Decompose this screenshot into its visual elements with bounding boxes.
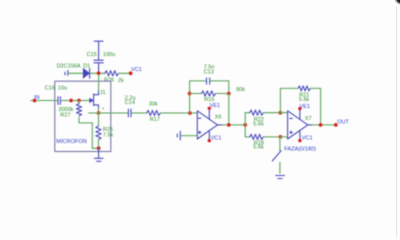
svg-text:C16: C16 — [45, 86, 55, 92]
wire D1 to junction — [91, 72, 105, 74]
op-amp X7 — [288, 109, 308, 141]
svg-text:X6: X6 — [215, 115, 222, 121]
power bar terminal (C15 top) — [94, 40, 103, 42]
transistor J1 — [89, 91, 99, 109]
svg-text:MICROFON: MICROFON — [56, 139, 86, 145]
capacitor C15 — [94, 60, 103, 73]
svg-text:7.5k: 7.5k — [103, 133, 114, 139]
svg-text:C13: C13 — [204, 69, 214, 75]
node (output/feedback R21) — [319, 123, 323, 127]
resistor R28 — [245, 134, 280, 139]
svg-text:R17: R17 — [150, 117, 160, 123]
wire J1 drain to D1 junction — [98, 75, 100, 91]
svg-text:C15: C15 — [87, 52, 97, 58]
svg-text:VE1: VE1 — [299, 104, 310, 110]
wire splitter vertical — [244, 113, 246, 137]
capacitor C14 — [128, 109, 131, 117]
svg-text:VC1: VC1 — [302, 136, 313, 142]
resistor R21 feedback — [280, 86, 320, 124]
node (J1 source) — [97, 111, 101, 115]
svg-text:R15: R15 — [204, 97, 214, 103]
resistor R17 — [147, 110, 161, 115]
node (X7 inverting input) — [279, 111, 283, 115]
wire source row to C14 — [89, 112, 128, 114]
pin mark (J1 source) — [103, 108, 104, 110]
page edge decorations — [396, 6, 398, 237]
svg-text:5.6k: 5.6k — [299, 97, 310, 103]
svg-text:100u: 100u — [103, 52, 115, 58]
power pin VE1 (X7) — [298, 107, 301, 110]
wire R28 to X7 — [280, 136, 287, 138]
wire power bar to C15 — [98, 42, 100, 60]
resistor R26 — [105, 71, 119, 76]
port (X6 non-inverting input) — [177, 131, 197, 140]
wire IN to C16 — [37, 100, 58, 102]
power pin VC1 (X7) — [298, 139, 301, 142]
microphone box — [55, 81, 111, 151]
wire X7 output — [308, 124, 313, 126]
node (X6 inverting input) — [188, 111, 192, 115]
wire R22 to X7 — [280, 112, 287, 114]
svg-text:X7: X7 — [305, 116, 312, 122]
wire R26 to VC1 — [119, 72, 131, 74]
svg-text:VC1: VC1 — [211, 136, 222, 142]
svg-text:FAZA(0/180): FAZA(0/180) — [284, 147, 316, 153]
node (feedback right) — [227, 92, 231, 96]
wire port to D1 — [69, 72, 84, 74]
wire R17 to X6 — [160, 112, 197, 114]
svg-text:5.6k: 5.6k — [253, 145, 264, 151]
svg-text:80k: 80k — [236, 87, 245, 93]
wire C13 to right vertical — [210, 81, 229, 93]
node (output/feedback) — [227, 123, 231, 127]
svg-text:C14: C14 — [125, 100, 135, 106]
node (X7 non-inverting input) — [279, 135, 283, 139]
svg-text:R27: R27 — [60, 112, 70, 118]
node VC1 — [129, 71, 133, 75]
svg-text:J1: J1 — [100, 90, 106, 96]
wire C16 to gate — [61, 100, 89, 102]
capacitor C16 — [58, 97, 60, 105]
resistor R25 — [96, 114, 101, 148]
svg-text:VE1: VE1 — [210, 103, 221, 109]
svg-text:VC1: VC1 — [131, 67, 142, 73]
node (feedback left) — [188, 92, 192, 96]
power pin VC1 (X6) — [208, 139, 211, 142]
svg-text:10u: 10u — [58, 86, 67, 92]
node (D1/C15/R26 junction) — [97, 71, 101, 75]
port (D1 anode) — [65, 70, 68, 75]
resistor R22 — [245, 110, 280, 115]
node — [77, 99, 81, 103]
power pin VE1 (X6) — [208, 107, 211, 110]
resistor R15 — [190, 91, 229, 96]
wire J1 source to node — [98, 108, 100, 113]
svg-text:30k: 30k — [149, 101, 158, 107]
diode D1 — [83, 69, 89, 79]
svg-text:D2C156A: D2C156A — [57, 63, 81, 69]
node OUT — [334, 123, 338, 127]
wire C14 to R17 — [132, 112, 147, 114]
wire feedback left vertical — [190, 81, 206, 113]
svg-text:D1: D1 — [83, 63, 90, 69]
wire feedback right vertical — [228, 94, 230, 125]
node (splitter) — [243, 123, 247, 127]
ground — [94, 148, 103, 161]
op-amp X6 — [197, 108, 217, 140]
svg-text:2k: 2k — [118, 78, 124, 84]
capacitor C13 — [207, 78, 210, 84]
resistor R27 — [76, 101, 97, 149]
port IN — [31, 100, 34, 102]
switch FAZA — [272, 137, 281, 174]
svg-text:OUT: OUT — [337, 120, 349, 126]
node — [69, 99, 73, 103]
svg-text:5.6k: 5.6k — [253, 122, 264, 128]
wire X6 output — [218, 124, 223, 126]
ground (switch) — [276, 176, 285, 179]
node (R25 bottom) — [97, 146, 101, 150]
